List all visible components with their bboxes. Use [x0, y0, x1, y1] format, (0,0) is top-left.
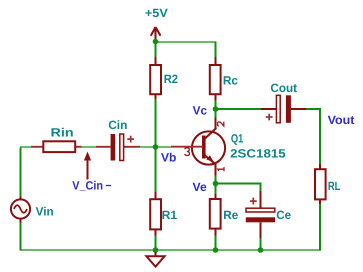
wire collector to Vc — [215, 109, 217, 118]
wire Vb down to R1 — [155, 147, 157, 193]
svg-text:RL: RL — [328, 179, 341, 193]
pin number 1 (emitter) — [218, 167, 224, 171]
junction Ve — [213, 181, 219, 187]
svg-text:R2: R2 — [164, 72, 179, 86]
wire R1 bottom — [155, 236, 157, 251]
capacitor Ce — [246, 191, 275, 239]
wire Ve to Ce — [216, 184, 261, 192]
wire Rc top drop — [215, 41, 217, 57]
capacitor Cin — [96, 134, 140, 161]
svg-text:Vout: Vout — [328, 113, 355, 127]
junction Vb — [153, 144, 159, 150]
wire R2 top — [155, 42, 157, 58]
capacitor Cout — [261, 95, 306, 123]
power +5V symbol arrow — [151, 27, 161, 40]
annotation arrow V_Cin — [84, 152, 91, 180]
junction Vc — [213, 106, 219, 112]
wire Rin to Cin — [81, 146, 97, 148]
resistor Rin — [31, 141, 82, 152]
svg-text:+5V: +5V — [145, 6, 168, 20]
wire Vc to Cout — [216, 108, 262, 110]
svg-text:2SC1815: 2SC1815 — [230, 146, 286, 160]
svg-text:Rc: Rc — [223, 73, 238, 87]
pin number 2 (collector) — [218, 122, 224, 127]
ground — [146, 252, 164, 267]
junction +5V node — [153, 39, 159, 45]
wire Rc to Vc — [215, 101, 217, 110]
wire Cin to Vb — [140, 146, 156, 148]
svg-text:Q1: Q1 — [231, 131, 244, 145]
wire Vin top to corner — [20, 148, 22, 197]
pin number 3 (base) — [185, 148, 190, 156]
polarity + of Cout — [266, 114, 273, 121]
wire Ve down to Re — [215, 184, 217, 195]
resistor R2 — [150, 57, 161, 100]
svg-text:Vb: Vb — [161, 151, 176, 165]
resistor RL — [315, 164, 326, 205]
wire Vin bottom — [20, 223, 22, 251]
junction bottom R1/ground — [153, 247, 159, 253]
polarity + of Ce — [250, 198, 257, 205]
junction bottom Re — [213, 247, 219, 253]
wire Vb to base — [156, 146, 172, 148]
resistor Rc — [210, 57, 221, 101]
wire Cout to Vout corner — [306, 109, 320, 165]
wire Ce bottom — [260, 238, 262, 250]
polarity + of Cin — [127, 136, 134, 143]
wire corner to Rin — [20, 146, 32, 148]
junction bottom Ce — [258, 247, 264, 253]
resistor R1 — [150, 192, 161, 236]
wire R2 to Vb — [155, 99, 157, 147]
resistor Re — [210, 194, 221, 236]
wire top rail — [156, 41, 216, 43]
svg-text:Re: Re — [223, 208, 238, 222]
svg-text:Cout: Cout — [270, 81, 297, 95]
svg-text:Ve: Ve — [193, 180, 208, 194]
svg-text:R1: R1 — [162, 208, 178, 222]
wire Re bottom — [215, 236, 217, 251]
wire RL down — [319, 204, 321, 251]
svg-text:Rin: Rin — [51, 126, 74, 140]
wire bottom rail — [21, 249, 321, 251]
wire emitter to Ve — [215, 176, 217, 184]
transistor Q1 — [171, 117, 225, 176]
voltage source Vin — [11, 196, 30, 223]
svg-text:Vin: Vin — [36, 205, 54, 219]
svg-text:V_Cin −: V_Cin − — [72, 178, 111, 192]
svg-text:Vc: Vc — [193, 104, 208, 118]
svg-text:Cin: Cin — [108, 118, 127, 132]
svg-text:Ce: Ce — [276, 208, 291, 222]
